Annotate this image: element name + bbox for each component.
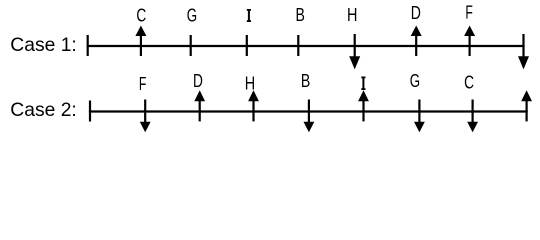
svg-text:B: B <box>296 5 305 25</box>
up arrow end case 2 <box>521 90 532 121</box>
tick G case 1 <box>190 35 192 56</box>
svg-text:D: D <box>193 71 203 91</box>
down arrow B case 2 <box>304 100 315 133</box>
svg-text:G: G <box>410 71 420 92</box>
svg-text:F: F <box>465 3 472 23</box>
label I case 1 (serif style) <box>247 9 251 22</box>
case 2 start tick <box>89 101 91 122</box>
up arrow I case 2 <box>358 90 369 121</box>
svg-text:Case 1:: Case 1: <box>10 35 76 56</box>
label I case 2 (serif style) <box>361 77 365 91</box>
tick B case 1 <box>297 35 299 56</box>
down arrow F case 2 <box>140 100 151 133</box>
up arrow H case 2 <box>248 90 259 121</box>
svg-text:C: C <box>464 72 474 92</box>
up arrow D case 1 <box>411 26 422 57</box>
svg-text:G: G <box>187 6 197 27</box>
svg-text:H: H <box>347 4 357 25</box>
svg-text:F: F <box>139 74 146 94</box>
case 1 axis line <box>87 45 525 47</box>
up arrow D case 2 <box>194 90 205 121</box>
tick I case 1 <box>246 35 248 56</box>
case 2 axis line <box>89 110 528 112</box>
down arrow G case 2 <box>414 100 425 133</box>
svg-text:Case 2:: Case 2: <box>10 100 76 121</box>
svg-text:C: C <box>136 6 146 26</box>
up arrow C case 1 <box>135 26 146 57</box>
svg-text:B: B <box>301 71 310 91</box>
down arrow H case 1 <box>349 34 360 69</box>
svg-text:D: D <box>411 3 421 23</box>
down arrow end case 1 <box>518 34 529 69</box>
up arrow F case 1 <box>464 26 475 57</box>
down arrow C case 2 <box>467 100 478 133</box>
case 1 start tick <box>87 35 89 56</box>
